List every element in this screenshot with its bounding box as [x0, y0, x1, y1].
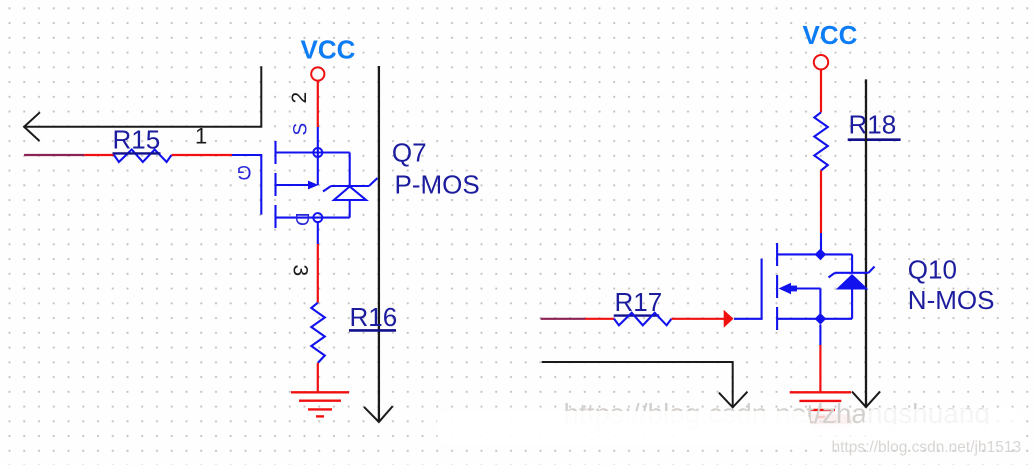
wire blue source pin lead down — [819, 325, 821, 345]
transistor Q10 bulk arrow — [779, 283, 792, 295]
wire red R17 to gate — [672, 318, 725, 320]
wire red R16 to ground — [317, 363, 319, 392]
body diode cathode bar (Q7) — [323, 178, 378, 192]
svg-text:Q10: Q10 — [908, 255, 957, 285]
body diode anode stem (Q7) — [349, 200, 351, 218]
wire blue drain pin Q10 — [820, 233, 822, 254]
wire red into R17 — [585, 318, 614, 320]
wire red VCC to R18 — [820, 69, 822, 112]
transistor Q7 channel dashed line — [274, 141, 276, 228]
power VCC terminal circle left — [311, 67, 324, 80]
svg-text:D: D — [292, 213, 313, 226]
body diode cathode bar (Q10) — [829, 267, 875, 278]
wire black mid arrow — [542, 362, 748, 407]
svg-text:3: 3 — [289, 265, 312, 277]
transistor Q10 top stub — [777, 253, 852, 255]
transistor Q7 drain stub — [276, 217, 350, 219]
svg-text:S: S — [291, 123, 312, 136]
transistor Q7 source stub — [276, 151, 350, 153]
svg-text:N-MOS: N-MOS — [908, 285, 995, 315]
wire dark red segment left — [24, 154, 84, 156]
transistor Q10 bulk to source — [819, 289, 821, 319]
power VCC terminal circle right — [814, 55, 828, 69]
svg-text:R16: R16 — [350, 302, 398, 332]
ground symbol left — [291, 392, 349, 416]
wire red into R15 — [84, 154, 114, 156]
resistor R17 underline — [614, 314, 660, 316]
resistor R17 zigzag — [614, 313, 672, 326]
watermark white band left — [437, 411, 810, 444]
junction diamond drain — [815, 249, 827, 261]
transistor Q7 gate pin wire — [232, 155, 261, 215]
wire red R15 to gate — [172, 154, 233, 156]
body diode triangle (Q7) — [334, 187, 366, 201]
wire blue drain pin lead down — [317, 222, 319, 244]
wire long vertical black right — [865, 79, 867, 406]
wire long vertical black left — [378, 66, 380, 421]
svg-text:1: 1 — [195, 124, 207, 149]
watermark white band lower — [700, 424, 1023, 438]
body diode anode stem (Q10) — [851, 290, 853, 319]
arrow head down (right line) — [852, 392, 880, 408]
svg-text:P-MOS: P-MOS — [395, 169, 480, 199]
wire red drain to R16 — [317, 244, 319, 303]
pin S lead + bulk tie (blue) — [317, 127, 319, 185]
svg-text:https://blog.csdn.net/jh1513: https://blog.csdn.net/jh1513 — [832, 439, 1022, 456]
transistor Q10 gate plate + pin wire — [734, 259, 762, 319]
resistor R18 zigzag — [814, 112, 828, 170]
wire red source to ground — [819, 345, 821, 392]
watermark pink smudge — [808, 414, 852, 429]
arrow head down (left line) — [364, 406, 393, 422]
svg-text:Q7: Q7 — [392, 138, 427, 168]
watermark white band right — [864, 409, 1023, 437]
ground symbol right — [790, 392, 851, 410]
transistor Q7 bulk arrow — [308, 181, 319, 190]
transistor Q10 channel dashed line — [776, 243, 778, 330]
body diode rail (Q7) — [349, 153, 351, 187]
wire W1 black arrow top-left — [24, 66, 261, 141]
resistor R15 underline — [113, 152, 161, 154]
transistor Q10 bulk stub — [796, 287, 820, 289]
svg-text:R18: R18 — [849, 110, 897, 140]
transistor Q10 source stub — [777, 318, 852, 320]
svg-text:VCC: VCC — [803, 20, 858, 50]
junction diamond source — [815, 313, 827, 325]
resistor R15 zigzag — [114, 150, 172, 163]
resistor R18 underline — [848, 138, 901, 141]
svg-text:VCC: VCC — [301, 35, 356, 65]
resistor R16 zigzag — [311, 303, 325, 363]
svg-text:G: G — [237, 161, 252, 182]
ground right lowest bar (faint under watermark) — [817, 416, 825, 418]
red arrow at gate — [724, 310, 734, 328]
wire dark red segment right — [541, 318, 585, 320]
transistor Q7 bulk stub — [276, 184, 309, 186]
body diode rail (Q10) — [851, 254, 853, 273]
wire red R18 to drain — [820, 171, 822, 234]
body diode filled triangle (Q10) — [836, 274, 869, 290]
resistor R16 underline — [349, 329, 396, 332]
wire red VCC to source pin — [317, 81, 319, 127]
svg-text:R15: R15 — [113, 125, 161, 155]
junction circle at D pin — [313, 213, 322, 222]
svg-text:2: 2 — [288, 92, 311, 104]
junction circle at S pin — [313, 148, 322, 157]
